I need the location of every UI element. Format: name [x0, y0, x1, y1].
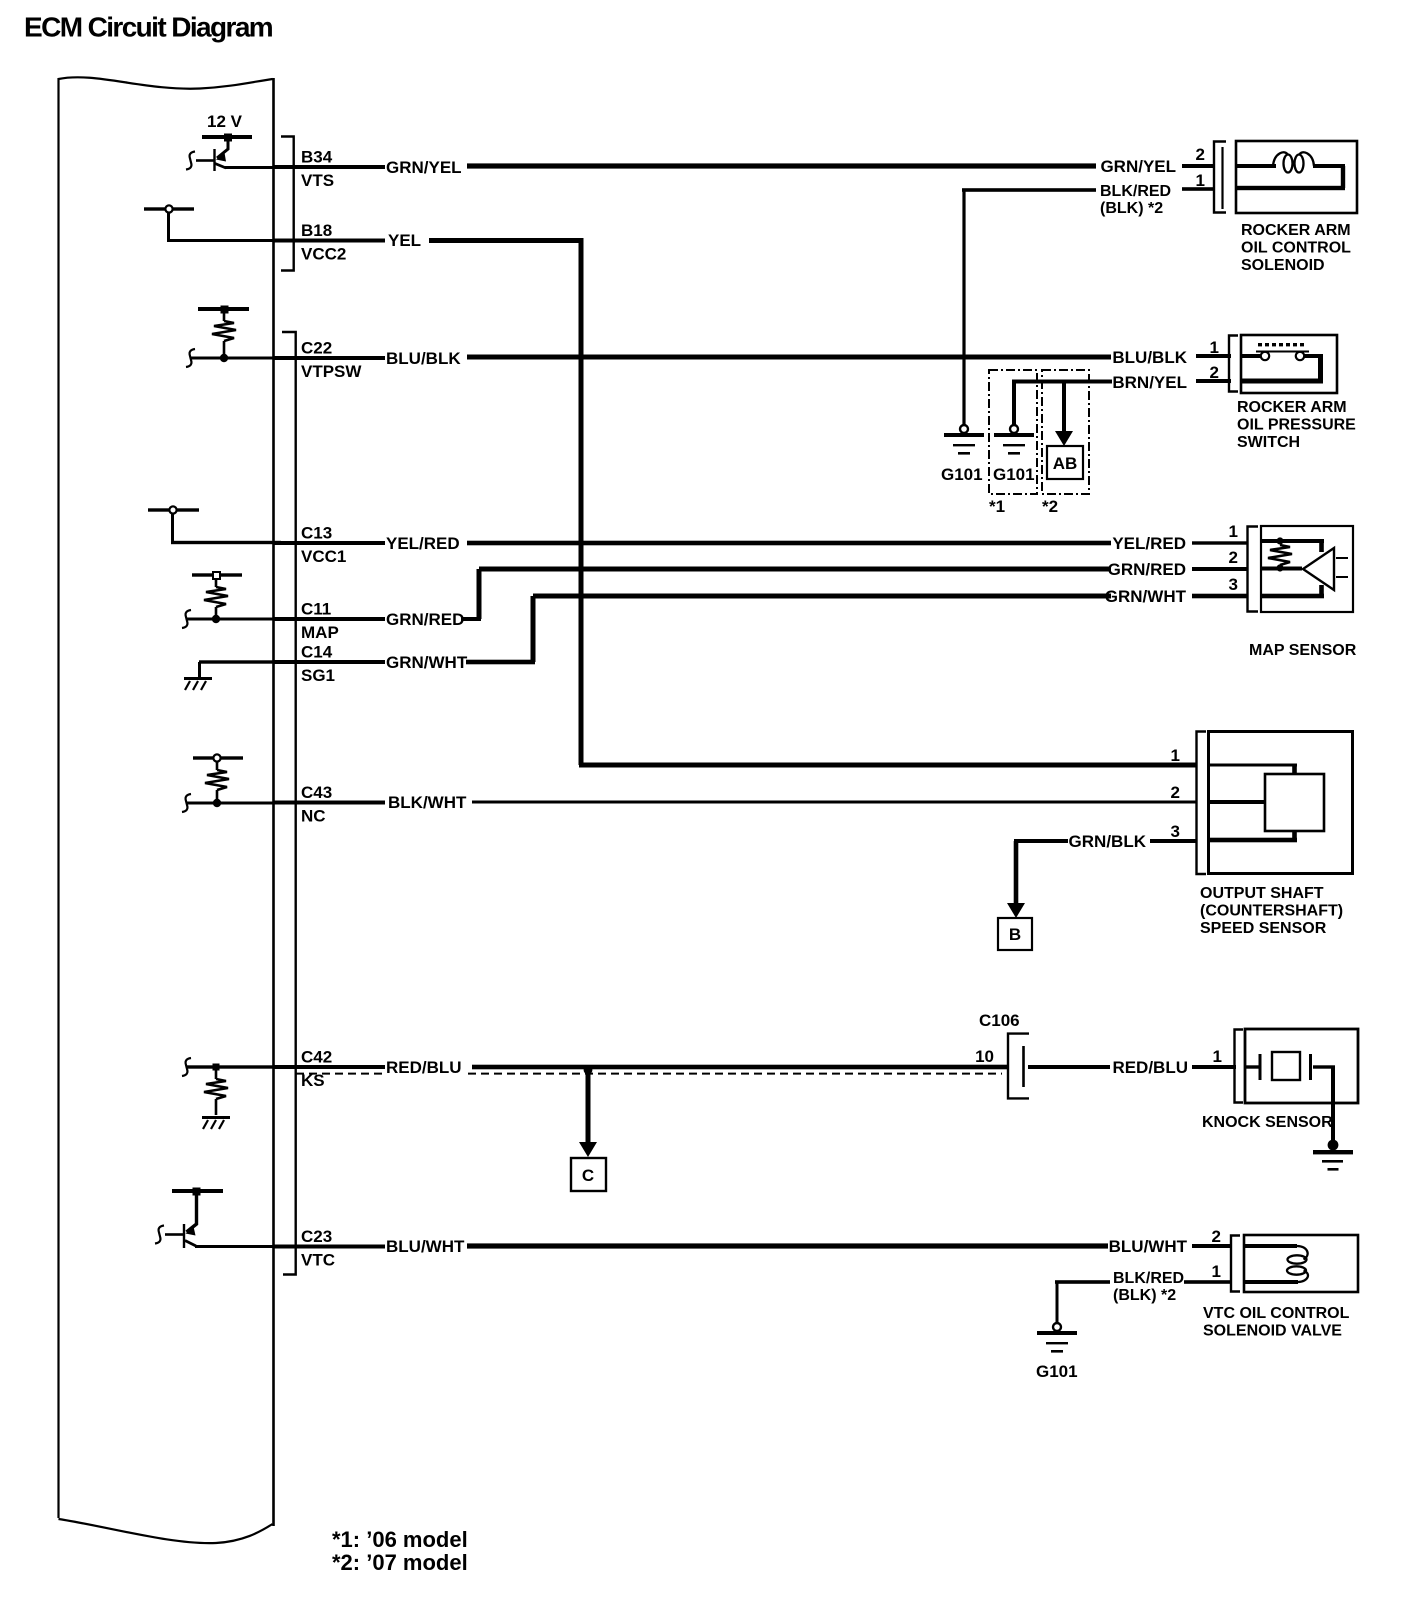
- knock sensor (piezo): [1245, 1029, 1358, 1103]
- svg-text:C: C: [582, 1166, 594, 1185]
- svg-text:BLK/RED: BLK/RED: [1113, 1270, 1184, 1287]
- pin B18 (VCC2): [274, 221, 385, 264]
- ground (C42 chassis): [202, 1116, 230, 1129]
- svg-text:1: 1: [1210, 338, 1219, 357]
- wire BRN/YEL (oil pressure switch pin 2 to G101/AB): [1012, 373, 1231, 392]
- svg-text:OUTPUT SHAFT: OUTPUT SHAFT: [1200, 885, 1324, 902]
- svg-text:1: 1: [1171, 746, 1180, 765]
- pin C11 (MAP): [274, 600, 385, 643]
- label output shaft speed sensor: [1200, 885, 1343, 937]
- wire BLK/RED to G101 (solenoid pin 1): [962, 183, 1215, 425]
- svg-text:1: 1: [1212, 1262, 1221, 1281]
- svg-text:BLK/RED: BLK/RED: [1100, 183, 1171, 200]
- wire Q1 emitter to pin B34: [225, 166, 281, 169]
- svg-text:1: 1: [1229, 522, 1238, 541]
- wire GRN/BLK (speed sensor pin 3 to connector B): [1014, 832, 1196, 851]
- svg-text:VTC OIL CONTROL: VTC OIL CONTROL: [1203, 1305, 1350, 1322]
- svg-text:3: 3: [1171, 822, 1180, 841]
- resistor R1 (C22 pull-up): [198, 306, 249, 363]
- pin C43 (NC): [274, 783, 385, 826]
- label rocker arm oil pressure switch: [1237, 399, 1356, 451]
- svg-text:GRN/WHT: GRN/WHT: [1105, 587, 1187, 606]
- svg-text:G101: G101: [1036, 1362, 1078, 1381]
- MAP sensor: [1261, 526, 1353, 612]
- svg-text:GRN/WHT: GRN/WHT: [386, 653, 468, 672]
- pin C42 (KS): [274, 1048, 385, 1091]
- svg-text:10: 10: [975, 1047, 994, 1066]
- output shaft speed sensor: [1209, 732, 1353, 874]
- svg-text:12 V: 12 V: [207, 112, 243, 131]
- connector B (to page B): [998, 841, 1032, 950]
- title: [24, 12, 273, 43]
- label knock sensor: [1202, 1114, 1333, 1131]
- resistor R4 (C42 damper to ground): [204, 1064, 228, 1116]
- resistor R3 (C43 pull-up): [193, 754, 243, 807]
- pin C14 (SG1): [274, 643, 385, 686]
- VTC oil control solenoid valve (coil): [1244, 1235, 1358, 1292]
- signal ground SG1 (chassis): [184, 677, 212, 690]
- shield (dashed) along RED/BLU: [296, 1073, 1002, 1075]
- ground G101 (from BLK/RED): [941, 425, 984, 484]
- svg-text:BLU/BLK: BLU/BLK: [386, 349, 461, 368]
- svg-text:ROCKER ARM: ROCKER ARM: [1241, 222, 1351, 239]
- svg-text:C42: C42: [301, 1048, 332, 1067]
- svg-text:GRN/RED: GRN/RED: [1108, 560, 1186, 579]
- knock sensor pin 1: [1213, 1047, 1222, 1066]
- wire VCC2 tap to pin B18: [167, 239, 281, 242]
- svg-text:VTPSW: VTPSW: [301, 362, 362, 381]
- in-line connector C106 pin 10: [975, 1011, 1029, 1098]
- pin 2 (MAP sensor): [1229, 548, 1238, 567]
- pin 2 (VTC solenoid): [1212, 1227, 1221, 1246]
- svg-text:OIL CONTROL: OIL CONTROL: [1241, 240, 1351, 257]
- svg-text:MAP SENSOR: MAP SENSOR: [1249, 642, 1357, 659]
- pin C22 (VTPSW): [274, 339, 385, 382]
- svg-text:*2: *2: [1042, 497, 1058, 516]
- pin 1 (oil pressure switch): [1210, 338, 1219, 357]
- footnote model notes: [332, 1527, 468, 1575]
- ECM connector C bracket: [282, 332, 296, 1275]
- ground G101 (in box *1, 06 model): [993, 381, 1035, 484]
- label rocker arm oil control solenoid: [1241, 222, 1351, 274]
- pin 1 (rocker arm oil control solenoid): [1196, 171, 1205, 190]
- svg-text:*1: ’06 model: *1: ’06 model: [332, 1527, 468, 1552]
- pin 2 (rocker arm oil control solenoid): [1196, 145, 1205, 164]
- svg-text:B34: B34: [301, 148, 333, 167]
- svg-text:BRN/YEL: BRN/YEL: [1112, 373, 1187, 392]
- label VTC oil control solenoid valve: [1203, 1305, 1350, 1340]
- rocker arm oil pressure switch: [1241, 335, 1337, 393]
- svg-text:SG1: SG1: [301, 666, 335, 685]
- pin B34 (VTS): [274, 148, 385, 191]
- wire Q2 emitter to pin C23: [195, 1245, 281, 1248]
- svg-text:MAP: MAP: [301, 623, 339, 642]
- junction (RED/BLU to connector C): [584, 1066, 593, 1075]
- svg-text:2: 2: [1196, 145, 1205, 164]
- connector bracket (knock sensor): [1235, 1030, 1244, 1103]
- node VCC2 tap (B18): [144, 205, 194, 240]
- svg-text:B18: B18: [301, 221, 332, 240]
- svg-text:AB: AB: [1053, 454, 1078, 473]
- svg-text:NC: NC: [301, 807, 326, 826]
- svg-text:C106: C106: [979, 1011, 1020, 1030]
- svg-text:OIL PRESSURE: OIL PRESSURE: [1237, 417, 1356, 434]
- svg-text:2: 2: [1212, 1227, 1221, 1246]
- svg-text:C23: C23: [301, 1227, 332, 1246]
- wire VCC1 tap to pin C13: [171, 541, 281, 544]
- svg-text:B: B: [1009, 925, 1021, 944]
- svg-text:1: 1: [1196, 171, 1205, 190]
- svg-text:VCC2: VCC2: [301, 245, 346, 264]
- wire RED/BLU (C42 to knock sensor via C106): [386, 1058, 1236, 1077]
- svg-text:YEL: YEL: [388, 231, 421, 250]
- wire pin C14 to signal ground: [198, 660, 281, 678]
- svg-text:SPEED SENSOR: SPEED SENSOR: [1200, 920, 1327, 937]
- label MAP sensor: [1249, 642, 1357, 659]
- wire GRN/WHT (C14 to MAP sensor pin 3): [386, 587, 1248, 672]
- svg-text:G101: G101: [993, 465, 1035, 484]
- connector bracket (speed sensor): [1197, 732, 1207, 875]
- connector bracket (VTC solenoid): [1231, 1236, 1240, 1292]
- wire YEL (B18 to speed sensor pin 1): [388, 231, 1196, 768]
- pin C23 (VTC): [274, 1227, 385, 1270]
- svg-text:YEL/RED: YEL/RED: [1112, 534, 1186, 553]
- wire YEL/RED (C13 to MAP sensor pin 1): [386, 534, 1248, 553]
- svg-text:KNOCK SENSOR: KNOCK SENSOR: [1202, 1114, 1333, 1131]
- wire R2 to pin C11: [182, 610, 281, 628]
- connector bracket (MAP sensor): [1248, 527, 1259, 612]
- wire R1 to pin C22: [186, 349, 281, 367]
- svg-text:2: 2: [1229, 548, 1238, 567]
- svg-text:YEL/RED: YEL/RED: [386, 534, 460, 553]
- svg-text:VCC1: VCC1: [301, 547, 346, 566]
- connector AB (07 model): [1047, 381, 1083, 479]
- svg-text:C14: C14: [301, 643, 333, 662]
- wire GRN/YEL (B34 to rocker arm oil control solenoid pin 2): [386, 157, 1215, 177]
- pin 3 (MAP sensor): [1229, 575, 1238, 594]
- svg-text:BLU/WHT: BLU/WHT: [1109, 1237, 1188, 1256]
- wire pin C42 (knock input): [182, 1058, 281, 1076]
- pin 1 (VTC solenoid): [1212, 1262, 1221, 1281]
- speed sensor pin numbers: [1171, 746, 1180, 841]
- pin 2 (oil pressure switch): [1210, 363, 1219, 382]
- svg-text:VTS: VTS: [301, 171, 334, 190]
- svg-text:(BLK) *2: (BLK) *2: [1113, 1287, 1176, 1304]
- svg-text:ROCKER ARM: ROCKER ARM: [1237, 399, 1347, 416]
- svg-text:2: 2: [1171, 783, 1180, 802]
- svg-text:G101: G101: [941, 465, 983, 484]
- wire BLU/WHT (C23 to VTC solenoid pin 2): [386, 1237, 1232, 1256]
- pin 1 (MAP sensor): [1229, 522, 1238, 541]
- svg-text:GRN/YEL: GRN/YEL: [1100, 157, 1176, 176]
- svg-text:RED/BLU: RED/BLU: [1112, 1058, 1188, 1077]
- ECM module body (torn box): [57, 77, 274, 1543]
- svg-text:BLU/WHT: BLU/WHT: [386, 1237, 465, 1256]
- svg-text:VTC: VTC: [301, 1251, 335, 1270]
- svg-text:C22: C22: [301, 339, 332, 358]
- knock sensor ground: [1313, 1067, 1353, 1171]
- svg-text:C13: C13: [301, 524, 332, 543]
- svg-text:SOLENOID VALVE: SOLENOID VALVE: [1203, 1323, 1342, 1340]
- svg-text:GRN/RED: GRN/RED: [386, 610, 464, 629]
- ground G101 (VTC solenoid): [1036, 1323, 1078, 1381]
- transistor Q1 (VTS driver, 12 V rail): [186, 134, 252, 172]
- svg-text:*2: ’07 model: *2: ’07 model: [332, 1550, 468, 1575]
- svg-text:SWITCH: SWITCH: [1237, 434, 1300, 451]
- wire GRN/RED (C11 to MAP sensor pin 2): [386, 560, 1248, 629]
- wire BLK/WHT (C43 to speed sensor pin 2): [388, 793, 1196, 812]
- svg-text:GRN/BLK: GRN/BLK: [1069, 832, 1147, 851]
- svg-text:RED/BLU: RED/BLU: [386, 1058, 462, 1077]
- dashed option box *2: [1042, 370, 1089, 516]
- 12 V supply label: [207, 112, 243, 131]
- connector bracket (rocker arm oil control solenoid): [1214, 142, 1226, 213]
- svg-text:C43: C43: [301, 783, 332, 802]
- dashed option box *1: [989, 370, 1037, 516]
- wire R3 to pin C43: [182, 794, 281, 812]
- wire BLU/BLK (C22 to oil pressure switch pin 1): [386, 348, 1231, 368]
- svg-text:SOLENOID: SOLENOID: [1241, 257, 1325, 274]
- svg-text:3: 3: [1229, 575, 1238, 594]
- svg-text:BLK/WHT: BLK/WHT: [388, 793, 467, 812]
- svg-text:*1: *1: [989, 497, 1005, 516]
- node VCC1 tap (C13): [148, 506, 199, 542]
- svg-text:2: 2: [1210, 363, 1219, 382]
- wire BLK/RED to G101 (VTC solenoid pin 1): [1055, 1270, 1231, 1323]
- rocker arm oil control solenoid (coil): [1236, 141, 1357, 213]
- svg-text:ECM Circuit Diagram: ECM Circuit Diagram: [24, 12, 273, 43]
- svg-text:(BLK) *2: (BLK) *2: [1100, 200, 1163, 217]
- svg-text:C11: C11: [301, 600, 331, 619]
- pin C13 (VCC1): [274, 524, 385, 567]
- svg-text:1: 1: [1213, 1047, 1222, 1066]
- connector C (to page C): [571, 1070, 606, 1191]
- svg-text:GRN/YEL: GRN/YEL: [386, 158, 462, 177]
- connector bracket (oil pressure switch): [1229, 336, 1238, 392]
- resistor R2 (C11 pull-up): [192, 572, 242, 623]
- svg-text:(COUNTERSHAFT): (COUNTERSHAFT): [1200, 903, 1343, 920]
- transistor Q2 (VTC driver): [155, 1188, 223, 1249]
- svg-text:BLU/BLK: BLU/BLK: [1112, 348, 1187, 367]
- ECM connector B bracket: [281, 137, 294, 271]
